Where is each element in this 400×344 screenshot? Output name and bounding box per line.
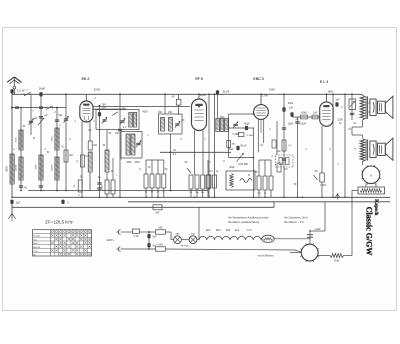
- svg-text:220V~: 220V~: [107, 238, 115, 242]
- svg-text:50 µF: 50 µF: [240, 145, 247, 148]
- svg-text:1,0µF: 1,0µF: [314, 228, 321, 231]
- svg-text:5µF: 5µF: [58, 114, 63, 117]
- svg-text:1nF: 1nF: [335, 99, 340, 102]
- svg-text:200V: 200V: [94, 87, 101, 91]
- svg-text:Kurz: Kurz: [33, 238, 37, 241]
- svg-text:50 pF: 50 pF: [223, 89, 230, 93]
- svg-text:4000: 4000: [126, 162, 132, 164]
- svg-text:EK 2: EK 2: [82, 77, 90, 81]
- svg-text:220V: 220V: [337, 118, 343, 121]
- svg-text:4µF: 4µF: [33, 117, 38, 120]
- svg-text:0,1A: 0,1A: [134, 235, 139, 238]
- svg-text:Lang: Lang: [33, 251, 37, 253]
- svg-text:Mittel: Mittel: [33, 242, 38, 245]
- svg-text:Feld: Feld: [334, 259, 340, 263]
- svg-text:nur bei Allstrom: nur bei Allstrom: [258, 254, 274, 257]
- svg-text:170V: 170V: [262, 94, 268, 98]
- svg-text:A: A: [370, 174, 372, 178]
- svg-text:600: 600: [159, 226, 164, 229]
- svg-text:2µF: 2µF: [16, 201, 21, 205]
- svg-text:600: 600: [159, 243, 164, 246]
- svg-text:Bei Wechselstrom-Ausführung Le: Bei Wechselstrom-Ausführung Leerlauf: [229, 217, 269, 220]
- svg-text:1,5 nF: 1,5 nF: [17, 88, 25, 92]
- svg-text:5nF: 5nF: [155, 211, 160, 214]
- svg-text:CY1: CY1: [247, 229, 252, 232]
- svg-text:EF 5: EF 5: [195, 77, 203, 81]
- svg-text:BF/GW: BF/GW: [181, 245, 189, 247]
- svg-text:170Ω: 170Ω: [320, 184, 326, 187]
- svg-text:10000: 10000: [15, 164, 17, 171]
- svg-text:M: M: [33, 138, 35, 140]
- svg-text:190V: 190V: [269, 87, 275, 91]
- svg-text:50µF: 50µF: [288, 102, 294, 105]
- svg-text:4000: 4000: [142, 112, 148, 114]
- svg-text:Classic G/GW: Classic G/GW: [364, 207, 373, 256]
- svg-text:2M: 2M: [69, 154, 72, 157]
- svg-text:0,1MΩ: 0,1MΩ: [233, 134, 240, 136]
- svg-text:Bei Allstrom: parallelschaltun: Bei Allstrom: parallelschaltung: [229, 221, 260, 224]
- svg-text:E L 4: E L 4: [320, 80, 328, 84]
- svg-text:EK2: EK2: [206, 229, 211, 232]
- svg-text:Bei Gleichstrom: Set A: Bei Gleichstrom: Set A: [285, 217, 308, 220]
- svg-text:5Ω: 5Ω: [315, 171, 318, 173]
- svg-text:10000: 10000: [51, 164, 53, 171]
- svg-text:50pF: 50pF: [39, 87, 46, 91]
- svg-text:0,5µF: 0,5µF: [300, 123, 307, 126]
- svg-text:1000: 1000: [134, 162, 140, 164]
- svg-text:1000: 1000: [51, 136, 53, 142]
- svg-text:50kΩ: 50kΩ: [301, 111, 307, 114]
- svg-text:5Ω: 5Ω: [185, 162, 188, 164]
- svg-text:1000: 1000: [35, 164, 37, 170]
- svg-text:ZF=128,5 kHz: ZF=128,5 kHz: [45, 220, 73, 225]
- svg-text:Schalter: Schalter: [33, 235, 40, 238]
- svg-text:Bei Allstrom: ⌐ 171: Bei Allstrom: ⌐ 171: [285, 221, 305, 224]
- svg-text:EBC 3: EBC 3: [253, 77, 263, 81]
- svg-text:30V: 30V: [101, 106, 106, 109]
- svg-text:200V: 200V: [200, 93, 206, 97]
- svg-text:3000: 3000: [6, 166, 9, 172]
- svg-text:5nF: 5nF: [152, 235, 157, 238]
- svg-text:5nF: 5nF: [152, 245, 157, 248]
- svg-text:1nF: 1nF: [313, 111, 318, 114]
- svg-text:EF5: EF5: [226, 229, 231, 232]
- svg-text:0,52 MΩ: 0,52 MΩ: [238, 162, 248, 166]
- svg-text:0,1MΩ: 0,1MΩ: [247, 135, 254, 137]
- svg-text:4000: 4000: [219, 117, 225, 119]
- svg-text:4µF: 4µF: [276, 150, 281, 153]
- svg-text:180V: 180V: [327, 90, 333, 94]
- svg-text:Mittel W: Mittel W: [33, 246, 40, 249]
- svg-text:50µF: 50µF: [228, 149, 234, 151]
- svg-text:EK2: EK2: [216, 229, 221, 232]
- svg-text:EL4: EL4: [235, 229, 240, 232]
- svg-text:MΩ: MΩ: [232, 144, 236, 146]
- svg-text:50µF: 50µF: [229, 167, 235, 169]
- svg-text:10µF: 10µF: [288, 123, 294, 126]
- svg-text:1µF: 1µF: [289, 107, 294, 110]
- svg-text:40µF: 40µF: [244, 122, 250, 125]
- svg-text:50µ: 50µ: [254, 172, 259, 174]
